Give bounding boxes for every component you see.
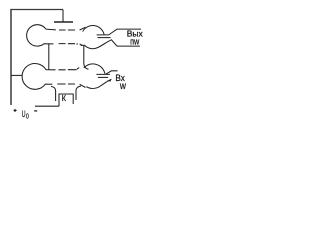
svg-text:0: 0 xyxy=(26,113,29,121)
wire series link right (W3 to W4) xyxy=(81,45,89,69)
label plus xyxy=(14,109,17,112)
label nw turns xyxy=(130,36,140,47)
label Vkh (input) xyxy=(115,73,125,83)
winding W4 lower arc with spiral tail xyxy=(86,79,111,88)
core upper bottom-right end curve xyxy=(80,44,83,46)
core lower dashed top line xyxy=(59,69,77,71)
core upper top-right end curve xyxy=(80,27,86,30)
core upper dashed bottom line xyxy=(59,43,78,45)
wire left bus vertical xyxy=(10,10,12,106)
winding W3 lower arc with spiral tail into bottom rail xyxy=(84,40,140,49)
core lower top-right end curve xyxy=(77,68,79,70)
core upper dashed top line xyxy=(59,29,75,31)
label minus xyxy=(34,110,37,112)
label U0 source xyxy=(22,108,26,119)
core lower bottom-right end curve xyxy=(80,84,86,87)
label w turns xyxy=(119,80,126,92)
wire W4 floating pinch bottom xyxy=(98,76,108,78)
svg-text:w: w xyxy=(119,80,126,92)
winding W2 lower-left circle with tangent leads xyxy=(22,63,55,89)
wire series link left (W1 to W2) xyxy=(48,43,50,70)
winding W4 lower-right circle with spiral tail xyxy=(84,64,105,74)
wire W2 left stub to bus xyxy=(11,74,22,76)
wire W3 floating pinch bottom xyxy=(98,37,111,39)
winding W3 upper-right circle with spiral tail into bottom rail xyxy=(83,25,105,34)
winding hook left (through lower core) xyxy=(51,86,56,101)
wire W4 pinch top into input top rail xyxy=(96,71,117,75)
winding W1 upper-left circle with tangent leads xyxy=(27,25,56,46)
switch K box (open bottom) xyxy=(59,94,73,106)
winding T-crossbar (single-turn through upper core) xyxy=(54,21,73,23)
wire W3 pinch top into output top rail xyxy=(97,29,141,35)
svg-text:U: U xyxy=(22,108,26,119)
wire bottom (minus lead to K) xyxy=(35,105,59,107)
core lower dashed bottom line xyxy=(57,83,75,85)
svg-text:пw: пw xyxy=(130,36,140,47)
wire top horizontal xyxy=(10,9,63,11)
svg-text:К: К xyxy=(62,94,67,104)
wire T-drop vertical xyxy=(62,10,64,23)
label K xyxy=(62,94,67,104)
winding hook right (through lower core) xyxy=(76,86,81,100)
label Vykh (output) xyxy=(127,29,144,39)
